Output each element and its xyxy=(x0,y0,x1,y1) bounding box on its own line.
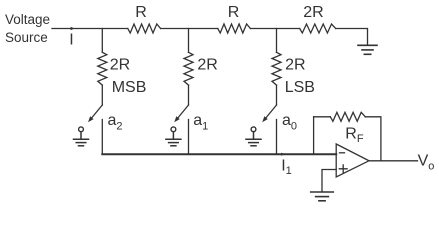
wire top horizontal from source to first R xyxy=(52,28,128,30)
svg-text:a1: a1 xyxy=(193,112,208,133)
resistor 2R MSB xyxy=(98,52,107,85)
op-amp minus sign xyxy=(340,152,345,154)
wire noninverting input xyxy=(322,170,336,192)
wire feedback left vertical xyxy=(313,117,315,154)
switch a1 arm xyxy=(177,105,188,119)
wire feedback top right and right vertical xyxy=(365,117,381,161)
svg-text:R: R xyxy=(135,4,147,21)
op-amp U1 triangle xyxy=(336,144,369,177)
svg-text:Voltage: Voltage xyxy=(5,12,50,27)
svg-text:a2: a2 xyxy=(108,112,123,133)
ground under switch a0 xyxy=(246,132,261,146)
resistor 2R LSB xyxy=(272,52,281,85)
wire branch2 upper lead xyxy=(188,29,190,53)
ground top right xyxy=(358,45,377,54)
resistor RF xyxy=(330,112,365,121)
arrow on switch a2 arm xyxy=(88,116,94,122)
wire switch1 to bus xyxy=(101,120,103,155)
wire branch3 upper lead xyxy=(276,29,278,53)
svg-text:R: R xyxy=(228,4,240,21)
ground under switch a2 xyxy=(74,132,89,146)
switch a1 throw contact circle xyxy=(171,127,176,132)
svg-text:I: I xyxy=(69,32,73,49)
svg-text:LSB: LSB xyxy=(285,79,315,96)
resistor R1 xyxy=(128,24,161,33)
svg-text:a0: a0 xyxy=(282,112,297,133)
svg-text:MSB: MSB xyxy=(112,79,147,96)
wire output xyxy=(369,160,418,162)
op-amp plus sign xyxy=(339,165,347,173)
svg-text:I1: I1 xyxy=(281,158,292,178)
switch a0 throw contact circle xyxy=(251,127,256,132)
arrow on switch a0 arm xyxy=(262,116,268,122)
resistor R2 xyxy=(218,24,251,33)
svg-text:2R: 2R xyxy=(197,57,217,74)
svg-text:RF: RF xyxy=(345,126,364,145)
switch a2 arm xyxy=(91,105,102,119)
svg-text:Vo: Vo xyxy=(418,153,435,173)
wire from top 2R to ground corner xyxy=(336,29,368,45)
arrow current I1 on bus xyxy=(281,153,285,156)
wire switch2 to bus xyxy=(188,120,190,155)
wire summing bus xyxy=(102,153,336,155)
switch a0 arm xyxy=(265,105,276,119)
wire between R2 and top 2R xyxy=(250,28,299,30)
svg-text:Source: Source xyxy=(5,30,48,45)
arrow on switch a1 arm xyxy=(174,116,180,122)
resistor 2R middle xyxy=(184,52,193,85)
resistor 2R top xyxy=(300,24,336,33)
arrow current I on source wire xyxy=(71,27,75,30)
svg-text:2R: 2R xyxy=(285,57,305,74)
wire branch1 upper lead xyxy=(101,29,103,53)
wire switch3 to bus xyxy=(276,120,278,155)
ground at op-amp plus input xyxy=(311,192,334,201)
wire branch3 lower lead xyxy=(276,85,278,105)
wire between R1 and R2 xyxy=(161,28,218,30)
wire feedback top left xyxy=(314,116,331,118)
svg-text:2R: 2R xyxy=(110,57,130,74)
wire branch2 lower lead xyxy=(188,85,190,105)
wire branch1 lower lead xyxy=(101,85,103,105)
switch a2 throw contact circle xyxy=(79,127,84,132)
ground under switch a1 xyxy=(166,132,181,146)
svg-text:2R: 2R xyxy=(303,4,323,21)
